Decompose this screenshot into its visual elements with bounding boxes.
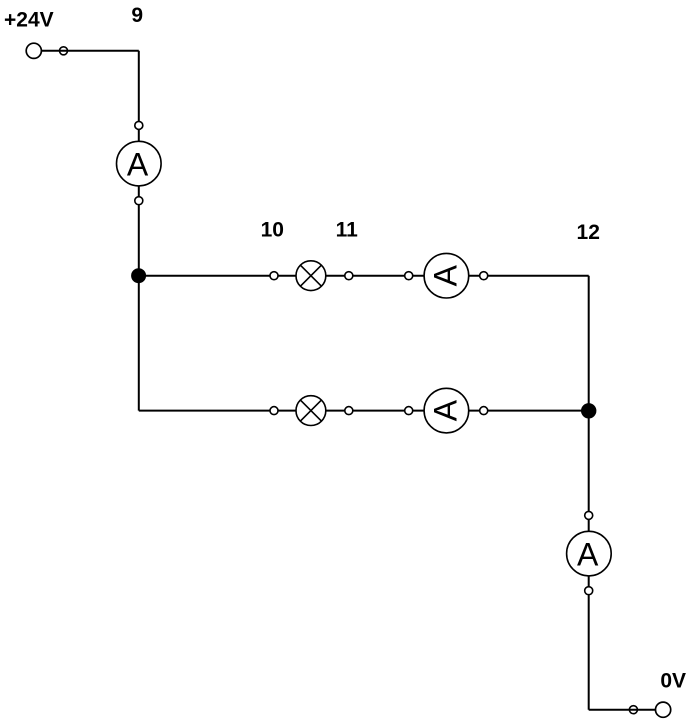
pin circle above ammeter A1: [135, 121, 143, 129]
svg-text:0V: 0V: [660, 669, 686, 692]
svg-text:A: A: [577, 536, 599, 572]
wire from +24V terminal to corner 9: [34, 50, 139, 52]
wire right vertical from node through ammeter down: [588, 411, 590, 710]
pin circle below lower ammeter: [585, 587, 593, 595]
node: junction dot row 2 right: [581, 403, 596, 418]
pin circle above lower ammeter: [585, 511, 593, 519]
pin circle left of lamp row 2: [270, 407, 278, 415]
pin circle right of ammeter row 2: [480, 407, 488, 415]
lamp (indicator) row 2: [296, 396, 326, 426]
ammeter (bottom right, series with 0V): [567, 531, 612, 576]
wire bottom to 0V terminal: [589, 709, 663, 711]
label 0V: [660, 669, 686, 692]
label 9: [131, 4, 143, 27]
ammeter row 2 (rotated): [424, 388, 469, 433]
label 10: [261, 218, 284, 241]
label 11: [336, 218, 359, 241]
svg-text:A: A: [127, 146, 149, 182]
node: junction dot row 1 left: [131, 268, 146, 283]
label 12: [577, 221, 600, 244]
pin circle 10 (left of lamp, row 1): [270, 272, 278, 280]
pin circle right of ammeter row 1: [480, 272, 488, 280]
terminal 0V (open circle): [656, 702, 671, 717]
svg-text:A: A: [427, 264, 463, 286]
svg-text:10: 10: [261, 218, 284, 241]
pin circle 11 (right of lamp, row 1): [345, 272, 353, 280]
svg-text:12: 12: [577, 221, 600, 244]
label +24V: [4, 8, 54, 31]
wire left vertical from node down to row 2: [138, 276, 140, 411]
pin circle below ammeter A1: [135, 197, 143, 205]
svg-text:11: 11: [336, 218, 359, 241]
pin circle right of lamp row 2: [345, 407, 353, 415]
terminal pin circle near +24V (wire passes through): [60, 47, 68, 55]
pin circle left of ammeter row 1: [405, 272, 413, 280]
terminal pin circle near 0V (wire passes through): [629, 706, 637, 714]
wire right vertical from corner 12 to node: [588, 276, 590, 411]
wire left vertical through ammeter A1 down to node at row 1: [138, 51, 140, 276]
svg-text:+24V: +24V: [4, 8, 54, 31]
ammeter A (top left, series with +24V): [117, 141, 162, 186]
pin circle left of ammeter row 2: [405, 407, 413, 415]
terminal +24V (open circle): [26, 43, 41, 58]
lamp (indicator) row 1: [296, 261, 326, 291]
svg-text:9: 9: [131, 4, 143, 27]
wire row 2 horizontal branch: [139, 410, 589, 412]
svg-text:A: A: [427, 399, 463, 421]
ammeter row 1 (rotated): [424, 253, 469, 298]
wire row 1 horizontal branch: [139, 275, 589, 277]
